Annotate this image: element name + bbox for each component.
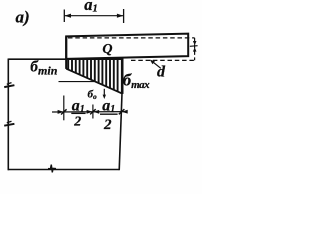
fraction a1/2 right bar	[100, 113, 118, 115]
stress diagram right edge (sigma max ordinate)	[121, 57, 124, 94]
bottom dimension line	[52, 111, 127, 113]
bottom dimension arrows at middle tick	[87, 110, 93, 114]
slab solid outline (tilted position)	[66, 34, 188, 59]
break mark on wall bottom edge	[48, 165, 56, 173]
top dimension a1 right extension tick	[123, 9, 125, 23]
hatch lines of stress diagram	[68, 59, 117, 91]
svg-text:бо: бо	[88, 89, 98, 102]
bottom dimension left extension line	[63, 96, 65, 121]
svg-text:2: 2	[73, 114, 81, 129]
dashed original slab position bottom edge	[131, 59, 195, 61]
fraction a1/2 left bar	[71, 112, 85, 114]
bottom dimension arrow at right tick	[122, 110, 128, 114]
bottom dimension slant tick middle	[90, 109, 96, 114]
stress diagram sloping bottom edge	[66, 69, 122, 94]
top dimension a1 right arrow	[117, 14, 124, 18]
svg-text:а1: а1	[84, 0, 98, 14]
top dimension a1 line	[64, 15, 123, 17]
svg-text:бmin: бmin	[30, 59, 57, 78]
bottom dimension arrow at left tick	[58, 110, 64, 114]
svg-text:Q: Q	[102, 42, 112, 57]
svg-text:бmax: бmax	[123, 71, 150, 92]
sigma 0 down arrow	[103, 89, 105, 96]
bottom dimension slant tick right	[119, 109, 125, 114]
wall top surface line	[8, 58, 122, 60]
leader arrow for d	[151, 61, 161, 69]
break mark upper on wall left edge	[4, 83, 14, 88]
bottom dimension middle extension line	[92, 105, 94, 119]
svg-text:а): а)	[16, 8, 30, 27]
svg-text:2: 2	[103, 117, 112, 133]
wall left edge	[7, 59, 9, 171]
thin reference line at sigma-min level	[59, 81, 95, 83]
svg-text:а1: а1	[72, 98, 85, 116]
svg-text:а1: а1	[102, 98, 115, 116]
dashed original slab position top edge	[68, 37, 195, 39]
gap dimension tick at right end	[190, 45, 198, 48]
slab left edge extended down (sigma min ordinate)	[65, 36, 67, 69]
leader arrowhead	[150, 60, 155, 65]
wall right edge	[119, 94, 122, 171]
dashed original slab position right edge	[194, 38, 196, 60]
break mark lower on wall left edge	[4, 121, 14, 126]
top dimension a1 left arrow	[65, 14, 72, 18]
gap dimension upper arrow	[193, 41, 197, 45]
wall bottom edge	[8, 169, 120, 171]
svg-text:d: d	[157, 64, 166, 81]
bottom dimension slant tick left	[61, 109, 67, 114]
top dimension a1 left extension tick	[63, 10, 65, 23]
gap dimension lower arrow	[193, 47, 197, 51]
